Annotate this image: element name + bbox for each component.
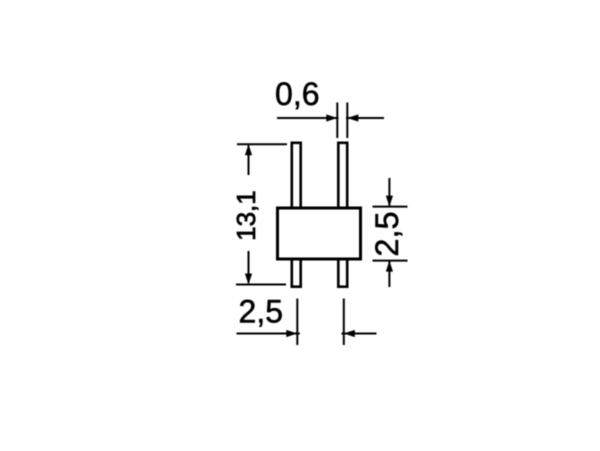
svg-text:13,1: 13,1 bbox=[231, 190, 261, 241]
pin 2 bottom lead bbox=[338, 255, 347, 287]
extension line pin2 centre bbox=[343, 299, 345, 346]
arrowhead 0,6 pointing left bbox=[347, 114, 358, 121]
extension line pin1 centre bbox=[296, 299, 298, 346]
dimension 13,1 upper line bbox=[248, 146, 250, 176]
svg-text:0,6: 0,6 bbox=[275, 76, 319, 112]
arrowhead 13,1 pointing down bbox=[245, 274, 252, 285]
extension tick body bottom bbox=[373, 260, 408, 262]
svg-text:2,5: 2,5 bbox=[369, 211, 405, 256]
dimension 0,6 left line bbox=[277, 117, 339, 119]
extension tick body top bbox=[373, 206, 408, 208]
extension tick right of pin width bbox=[346, 103, 348, 139]
arrowhead 13,1 pointing up bbox=[245, 144, 252, 155]
extension line pins top bbox=[237, 143, 287, 145]
arrowhead 2,5 body pointing down bbox=[386, 196, 393, 207]
dimension 2,5 body upper line bbox=[388, 178, 390, 206]
dimension 13,1 lower line bbox=[248, 251, 250, 283]
arrowhead 2,5 pitch pointing right bbox=[286, 330, 297, 337]
extension tick left of pin width bbox=[336, 103, 338, 139]
arrowhead 2,5 body pointing up bbox=[386, 261, 393, 272]
pin 2 top lead bbox=[338, 143, 347, 209]
svg-text:2,5: 2,5 bbox=[239, 293, 283, 329]
arrowhead 2,5 pitch pointing left bbox=[344, 330, 355, 337]
connector body bbox=[278, 208, 361, 259]
arrowhead 0,6 pointing right bbox=[326, 114, 337, 121]
dimension 2,5 body lower line bbox=[388, 262, 390, 288]
pin 1 bottom lead bbox=[292, 255, 301, 287]
dimension 2,5 pitch left line bbox=[237, 333, 300, 335]
extension line pins bottom bbox=[236, 284, 286, 286]
dimension 2,5 pitch right line bbox=[342, 333, 377, 335]
pin 1 top lead bbox=[292, 143, 301, 209]
dimension 0,6 right line bbox=[346, 117, 384, 119]
